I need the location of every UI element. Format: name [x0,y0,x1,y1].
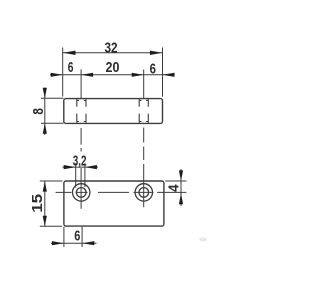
svg-text:8: 8 [30,108,47,115]
svg-text:15: 15 [29,194,46,213]
svg-text:4: 4 [166,184,183,192]
svg-text:6: 6 [150,61,156,78]
svg-text:6: 6 [68,59,74,76]
svg-text:20: 20 [106,59,120,76]
svg-text:32: 32 [105,40,118,57]
svg-text:3,2: 3,2 [73,152,87,169]
svg-text:6: 6 [74,227,80,244]
